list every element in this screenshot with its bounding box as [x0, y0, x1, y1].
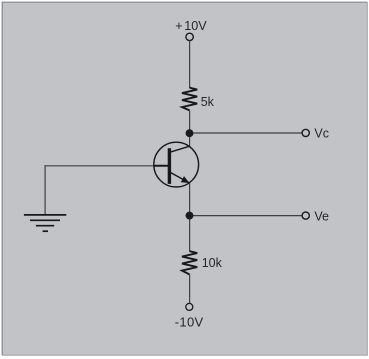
terminal Ve	[302, 212, 309, 219]
terminal Vc	[302, 129, 309, 136]
ground	[24, 215, 66, 231]
transistor Q1	[154, 142, 199, 187]
resistor R2 10k	[182, 251, 197, 274]
wire terminal to R1	[189, 41, 191, 88]
junction dot collector node	[186, 129, 194, 137]
svg-text:+10V: +10V	[175, 19, 207, 33]
svg-text:-10V: -10V	[175, 314, 204, 329]
svg-text:5k: 5k	[201, 95, 215, 109]
svg-text:Vc: Vc	[314, 127, 329, 141]
wire R2 to terminal	[189, 274, 191, 303]
wire emitter node to Ve	[190, 215, 302, 217]
wire collector node to Vc	[190, 132, 302, 134]
terminal -10V	[186, 303, 193, 310]
svg-text:Ve: Ve	[314, 210, 329, 224]
svg-text:10k: 10k	[202, 256, 223, 270]
junction dot emitter node	[186, 212, 194, 220]
resistor R1 5k	[182, 88, 197, 111]
terminal +10V	[186, 33, 193, 40]
wire ground to base	[45, 165, 154, 215]
wire emitter to emitter node	[189, 183, 191, 251]
wire R1 to collector node	[189, 110, 191, 146]
